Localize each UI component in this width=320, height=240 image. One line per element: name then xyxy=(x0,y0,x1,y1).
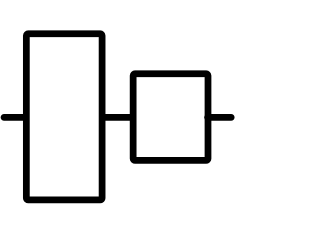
wire: left lead xyxy=(4,114,24,121)
wire: right lead xyxy=(208,114,232,121)
box B2 (right block) xyxy=(133,74,208,161)
wire: middle segment between blocks xyxy=(101,114,134,121)
box B1 (left block) xyxy=(26,34,102,200)
